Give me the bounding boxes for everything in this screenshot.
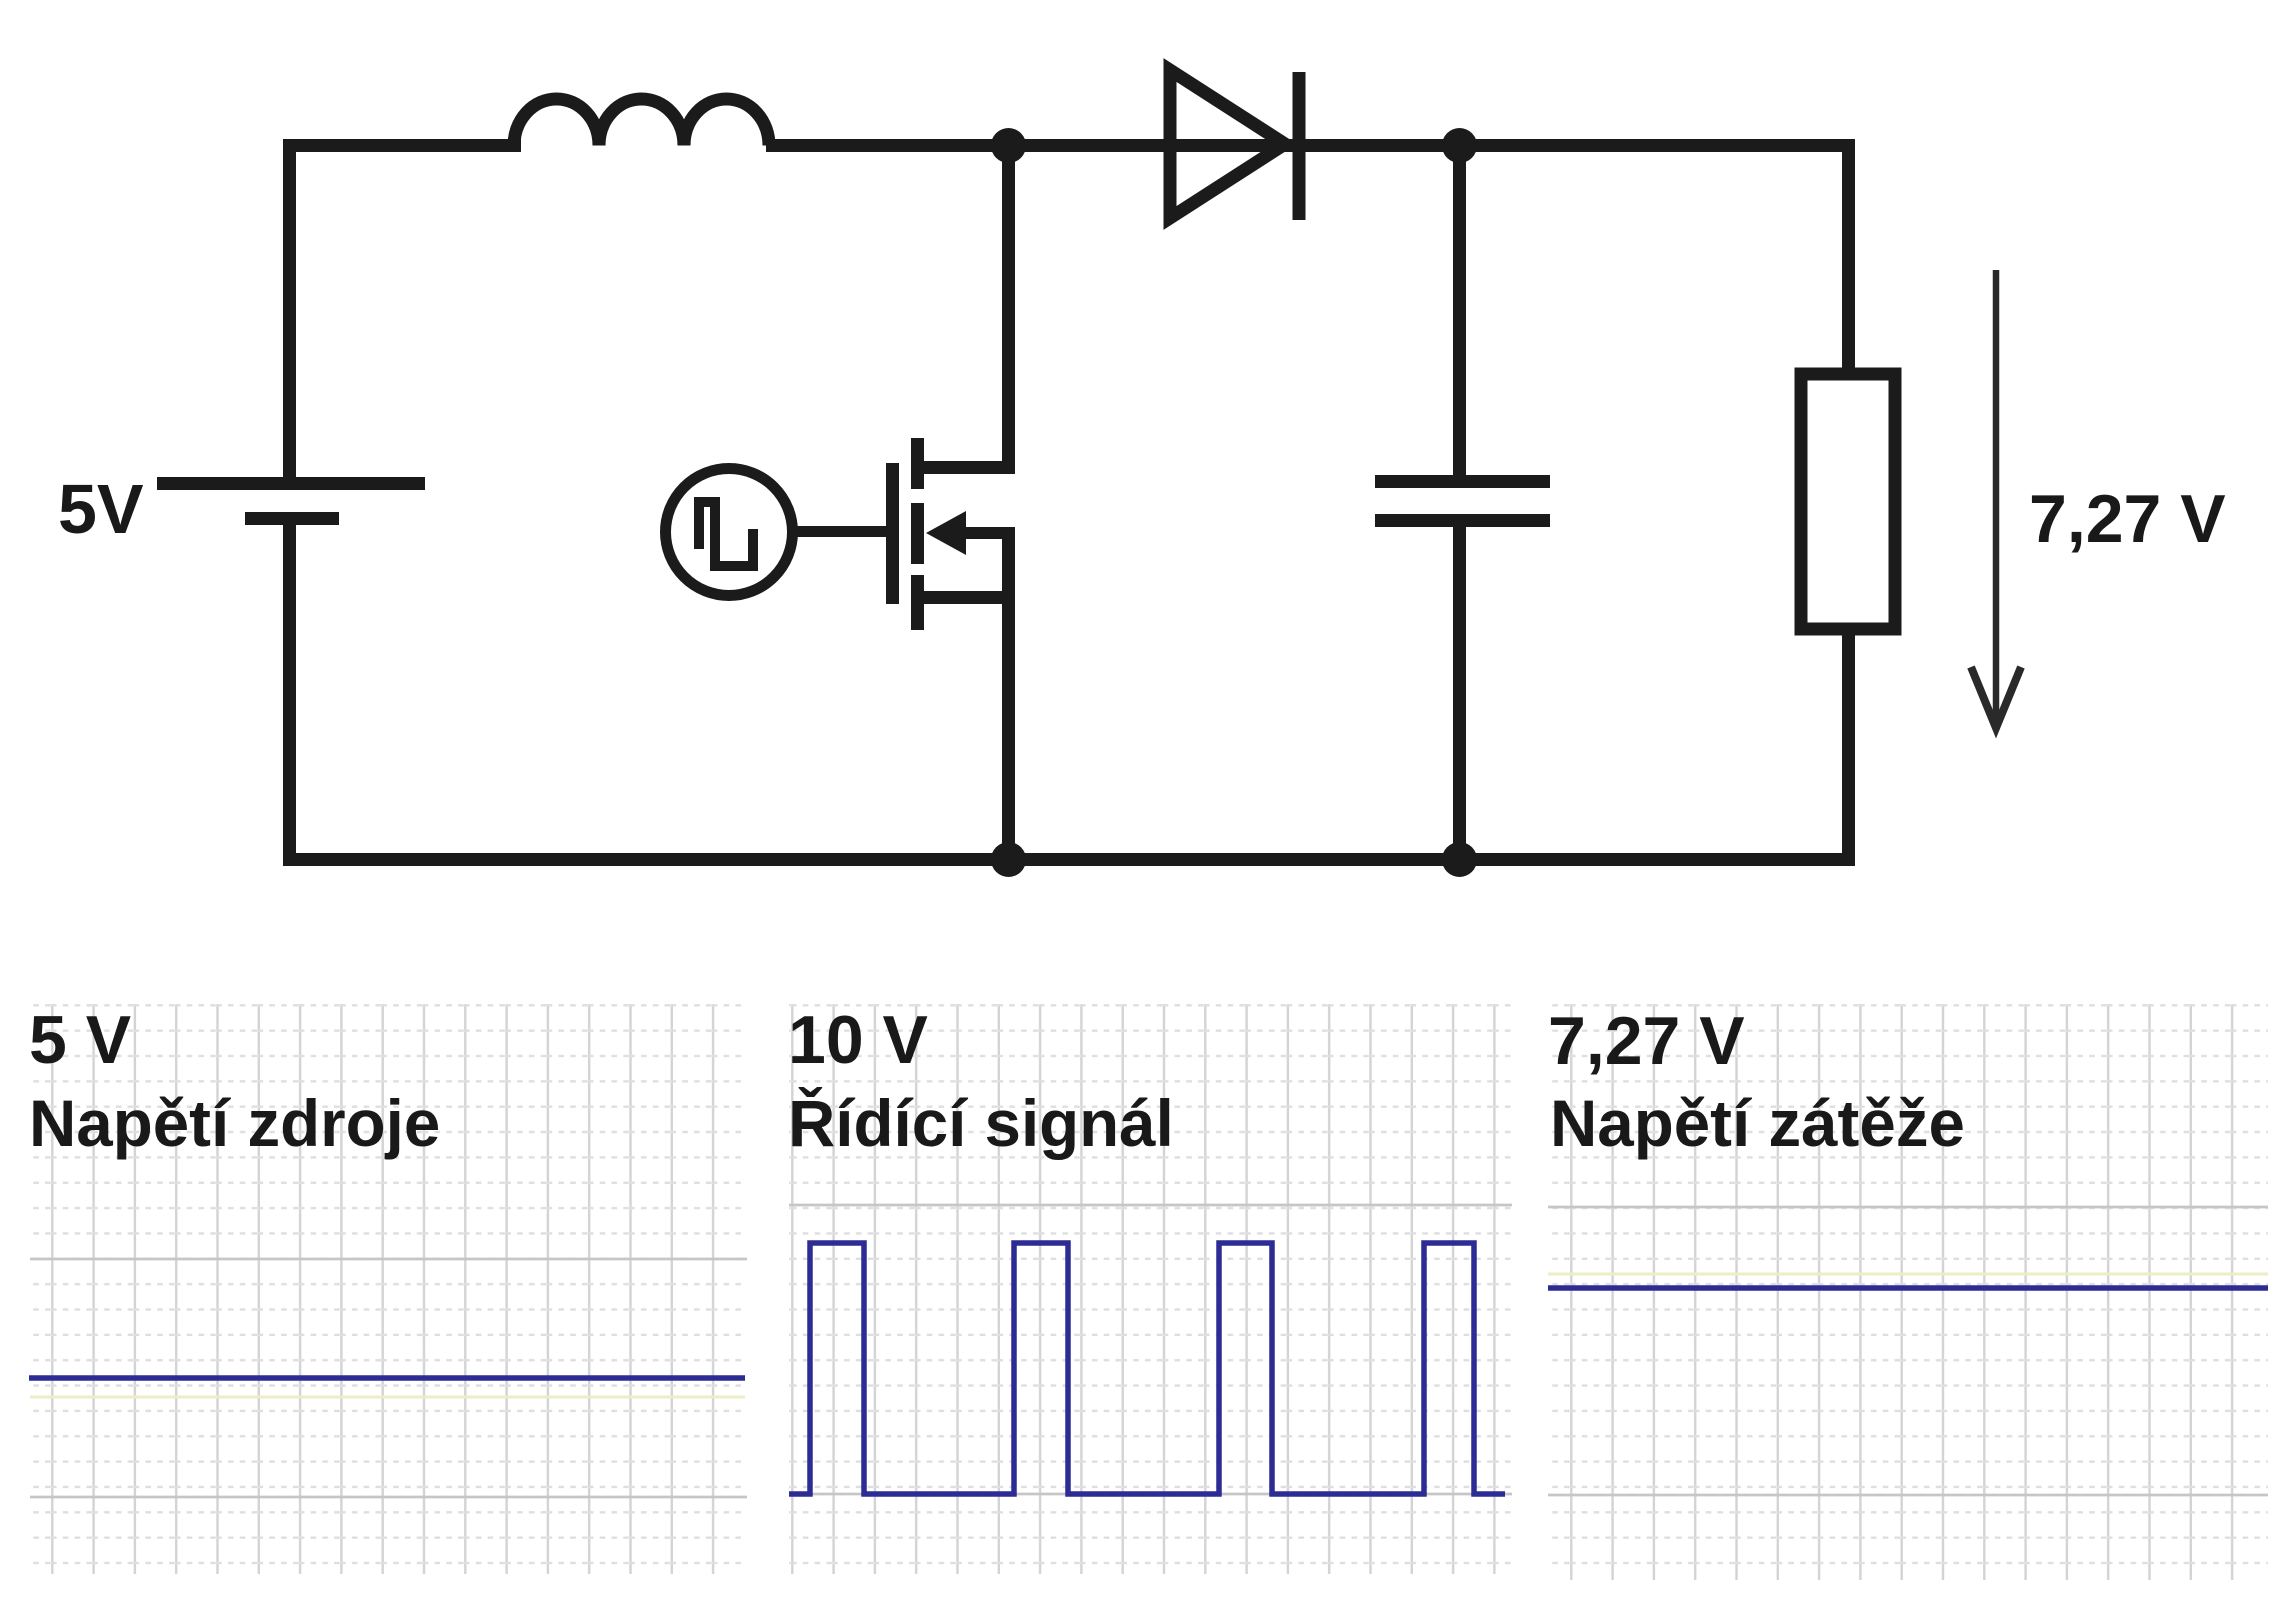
waveform panel 2 grid: [789, 1004, 1512, 1574]
diode D1: [1170, 70, 1299, 220]
resistor R1 (load): [1801, 374, 1895, 629]
wire source vertical: [1002, 527, 1015, 859]
wire right rail lower: [1842, 630, 1855, 860]
wire top rail left segment: [283, 139, 521, 152]
capacitor C1: [1375, 475, 1550, 527]
svg-text:5V: 5V: [58, 470, 144, 548]
battery V1: [157, 477, 425, 525]
voltage arrow 7,27 V: [1971, 270, 2021, 728]
waveform panel 3 trace (7,27 V flat): [1548, 1285, 2268, 1291]
node A (top drain junction): [991, 128, 1026, 163]
svg-text:Napětí zátěže: Napětí zátěže: [1550, 1087, 1965, 1160]
waveform panel 1 trace (5 V flat): [29, 1375, 745, 1381]
waveform panel 1 major gridlines: [30, 1259, 747, 1497]
capacitor C1 top lead: [1453, 145, 1466, 475]
svg-text:Řídící signál: Řídící signál: [788, 1087, 1174, 1160]
waveform panel 2 major gridlines: [789, 1205, 1512, 1494]
svg-text:Napětí zdroje: Napětí zdroje: [29, 1087, 440, 1160]
waveform panel 1 grid: [30, 1004, 747, 1574]
node B (top capacitor junction): [1442, 128, 1477, 163]
wire left rail lower: [283, 519, 296, 859]
inductor L1: [514, 99, 769, 145]
waveform panel 1 secondary trace (yellow): [30, 1396, 745, 1399]
wire top rail right segment: [766, 139, 1855, 152]
node D (bottom capacitor junction): [1442, 842, 1477, 877]
wire left rail upper: [283, 139, 296, 483]
svg-text:10 V: 10 V: [788, 1002, 928, 1078]
pulse source U1: [666, 469, 793, 596]
svg-text:7,27 V: 7,27 V: [1548, 1003, 1745, 1079]
waveform panel 3 grid: [1548, 1004, 2268, 1580]
svg-text:7,27 V: 7,27 V: [2029, 481, 2226, 557]
wire right rail upper: [1842, 139, 1855, 374]
waveform panel 3 major gridlines: [1548, 1207, 2268, 1495]
node C (bottom source junction): [991, 842, 1026, 877]
svg-text:5 V: 5 V: [29, 1002, 131, 1078]
transistor Q1 (NMOS): [797, 438, 1015, 630]
waveform panel 3 secondary trace (yellow): [1548, 1273, 2268, 1276]
waveform panel 2 trace (PWM pulses): [789, 1243, 1505, 1494]
capacitor C1 bottom lead: [1453, 527, 1466, 859]
wire bottom rail: [283, 853, 1855, 866]
wire drain vertical: [1002, 145, 1015, 474]
